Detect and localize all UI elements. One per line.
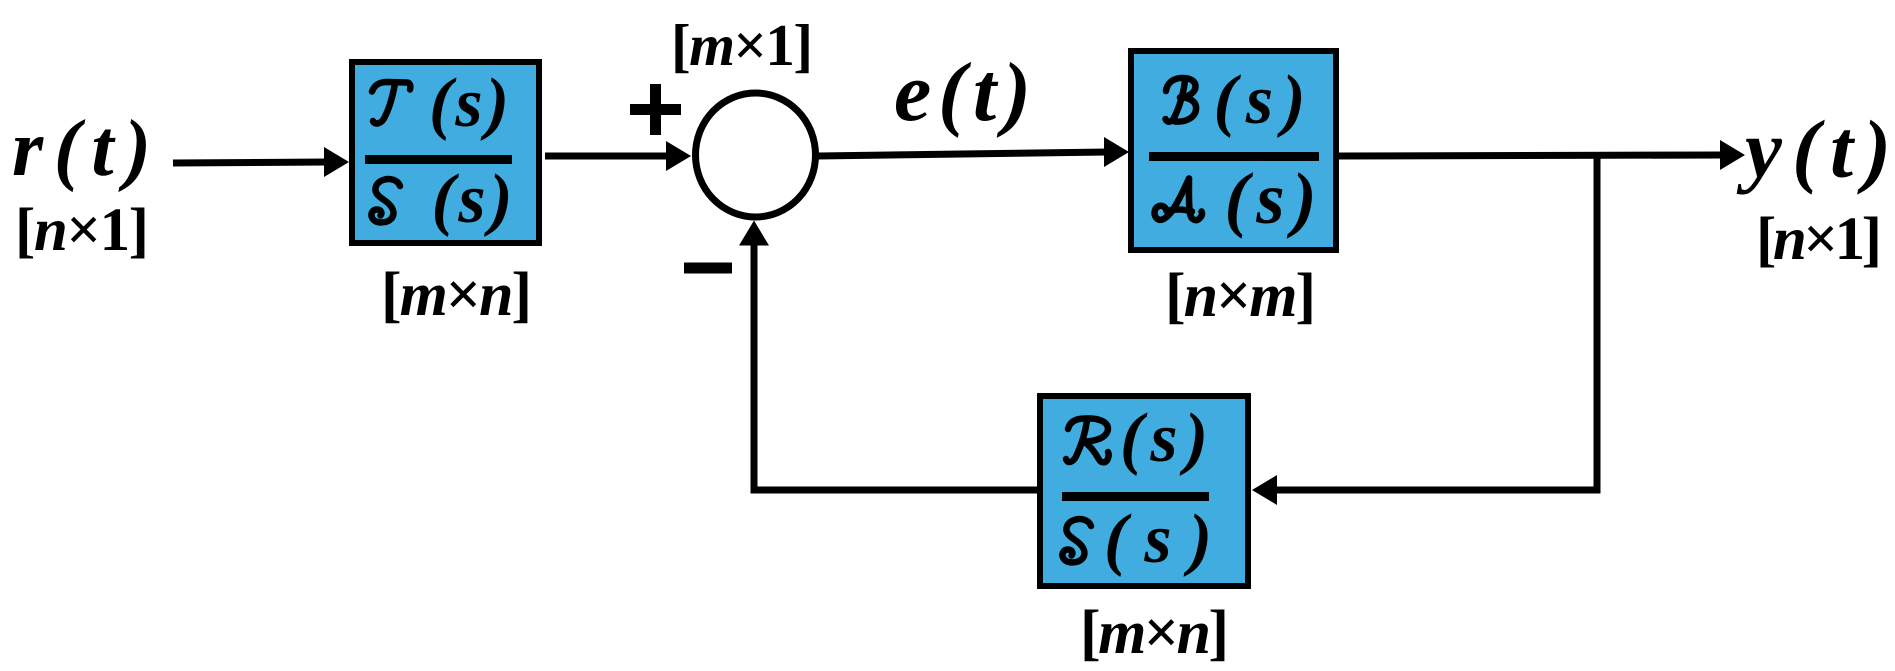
svg-text:[m×n]: [m×n]	[381, 261, 532, 329]
svg-text:[n×1]: [n×1]	[15, 197, 149, 264]
svg-text:(s): (s)	[1104, 501, 1212, 578]
svg-text:[m×n]: [m×n]	[1080, 599, 1229, 667]
svg-text:(s): (s)	[1120, 400, 1208, 477]
svg-text:[n×1]: [n×1]	[1756, 206, 1882, 273]
svg-text:(s): (s)	[432, 161, 513, 238]
svg-text:(s): (s)	[429, 65, 509, 142]
svg-text:y(t): y(t)	[1736, 103, 1891, 195]
svg-text:[n×m]: [n×m]	[1165, 262, 1316, 330]
svg-text:(s): (s)	[1214, 62, 1306, 139]
svg-text:[m×1]: [m×1]	[671, 12, 813, 78]
svg-text:(s): (s)	[1225, 158, 1317, 239]
svg-text:e(t): e(t)	[894, 46, 1031, 139]
